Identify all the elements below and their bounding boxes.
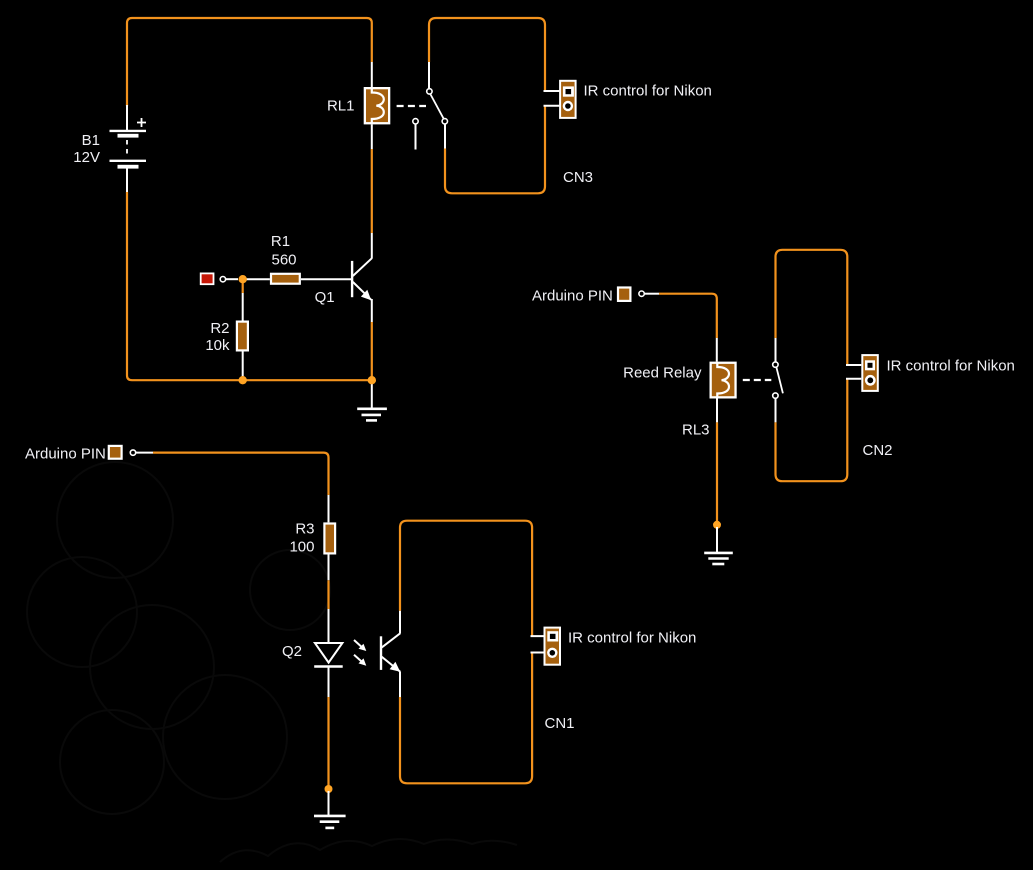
wire: battery bottom down and along bottom rail bbox=[127, 192, 372, 380]
wire: Arduino PIN to R3 bbox=[153, 453, 329, 495]
connector CN1 bbox=[531, 627, 697, 732]
svg-text:IR control for Nikon: IR control for Nikon bbox=[584, 83, 712, 100]
svg-text:B1: B1 bbox=[82, 132, 100, 149]
svg-text:560: 560 bbox=[271, 252, 296, 269]
switch SW1 (RL1 contacts) bbox=[413, 62, 448, 150]
svg-text:Arduino PIN: Arduino PIN bbox=[25, 446, 106, 463]
svg-text:12V: 12V bbox=[73, 149, 100, 166]
svg-text:IR control for Nikon: IR control for Nikon bbox=[568, 630, 696, 647]
node dot (emitter/ground junction) bbox=[368, 376, 376, 384]
wire: LED cathode to ground junction bbox=[327, 697, 329, 789]
LED of optocoupler Q2 bbox=[282, 609, 343, 697]
wire: RL1 bottom to Q1 collector bbox=[371, 149, 373, 233]
wire: CN2 loop lower bbox=[776, 379, 848, 481]
input terminal (red) bbox=[200, 273, 238, 286]
wire: CN3 loop upper bbox=[429, 18, 545, 91]
wire: CN1 loop lower bbox=[400, 653, 532, 784]
resistor R2 bbox=[205, 293, 249, 380]
svg-text:Q2: Q2 bbox=[282, 643, 302, 660]
battery B1 bbox=[73, 105, 146, 192]
node dot (input junction) bbox=[239, 275, 247, 283]
dashed actuator line RL3 to switch bbox=[743, 379, 772, 381]
ground (reed relay circuit) bbox=[704, 527, 733, 564]
svg-text:R2: R2 bbox=[210, 320, 229, 337]
wire: CN1 loop upper bbox=[400, 521, 532, 636]
phototransistor of optocoupler Q2 bbox=[381, 611, 400, 697]
wire: battery top-left loop (battery top to RL1 top) bbox=[127, 18, 372, 106]
svg-text:CN2: CN2 bbox=[863, 442, 893, 459]
svg-text:R1: R1 bbox=[271, 233, 290, 250]
node dot (RL3 ground junction) bbox=[713, 521, 721, 529]
svg-text:Arduino PIN: Arduino PIN bbox=[532, 288, 613, 305]
resistor R3 bbox=[289, 495, 336, 580]
svg-text:10k: 10k bbox=[205, 337, 230, 354]
resistor R1 bbox=[244, 233, 352, 285]
connector CN2 bbox=[846, 354, 1015, 459]
wire: CN3 loop lower bbox=[445, 106, 545, 194]
svg-text:100: 100 bbox=[289, 539, 314, 556]
transistor Q1 bbox=[315, 233, 372, 322]
svg-text:RL3: RL3 bbox=[682, 422, 710, 439]
Arduino PIN terminal (middle right) bbox=[532, 286, 659, 304]
connector CN3 bbox=[544, 80, 712, 186]
svg-text:Reed Relay: Reed Relay bbox=[623, 365, 702, 382]
dashed actuator line RL1 to switch bbox=[397, 105, 426, 107]
svg-text:IR control for Nikon: IR control for Nikon bbox=[887, 358, 1015, 375]
node dot (LED ground junction) bbox=[325, 785, 333, 793]
svg-text:RL1: RL1 bbox=[327, 98, 355, 115]
wire: CN2 loop upper bbox=[776, 250, 848, 365]
svg-text:Q1: Q1 bbox=[315, 289, 335, 306]
wire: node to R2 orange stub bbox=[242, 281, 244, 293]
wire: R3 to LED bbox=[327, 580, 329, 609]
ground (optocoupler circuit) bbox=[314, 791, 346, 828]
node dot (R2 bottom junction) bbox=[239, 376, 247, 384]
ground (upper circuit) bbox=[357, 380, 387, 420]
light arrows bbox=[354, 640, 366, 666]
svg-text:CN3: CN3 bbox=[563, 169, 593, 186]
switch SW2 (RL3 contacts) bbox=[773, 338, 783, 422]
relay coil RL1 bbox=[327, 62, 390, 149]
reed relay RL3 bbox=[623, 338, 737, 439]
svg-text:CN1: CN1 bbox=[545, 715, 575, 732]
faint doodle background bbox=[27, 462, 517, 862]
wire: Q1 emitter down to bottom rail bbox=[371, 322, 373, 380]
wire: RL3 bottom to ground junction bbox=[716, 422, 718, 524]
wire: Arduino PIN to RL3 bbox=[659, 294, 717, 338]
svg-text:R3: R3 bbox=[295, 521, 314, 538]
Arduino PIN terminal (lower left) bbox=[25, 445, 153, 463]
